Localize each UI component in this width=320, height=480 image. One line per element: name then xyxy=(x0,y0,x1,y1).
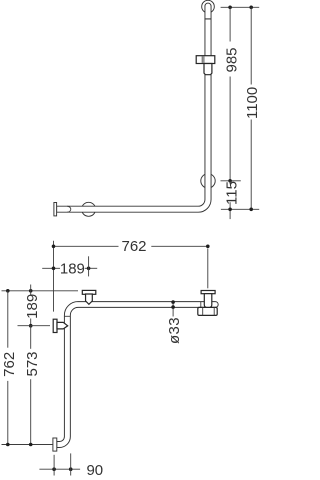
top extension line (upper view) xyxy=(221,6,260,8)
slider lower block xyxy=(204,64,212,75)
dot 762v/bottom xyxy=(6,443,10,447)
svg-text:1100: 1100 xyxy=(244,87,260,119)
dot 90/right xyxy=(69,467,73,471)
svg-text:573: 573 xyxy=(24,351,41,376)
dimension line 189 left upper segment xyxy=(30,285,32,296)
shower head slider body xyxy=(196,56,215,64)
corner mount cap xyxy=(82,290,96,294)
svg-text:115: 115 xyxy=(223,181,240,205)
svg-text:985: 985 xyxy=(223,47,240,72)
rosette on horizontal tube (upper view) xyxy=(82,202,96,216)
dimension line 189 top left segment xyxy=(42,267,60,269)
extension line shower column axis xyxy=(207,249,209,289)
dimension line 115 upper stub xyxy=(229,181,231,185)
joint line across vertical tube xyxy=(64,315,70,317)
dot 985/bottom xyxy=(228,179,232,183)
shower column cap (right end) xyxy=(201,291,215,294)
dot diameter bottom xyxy=(171,305,175,309)
L-shaped tube (upper view) xyxy=(57,19,211,212)
dot 90/left xyxy=(52,467,56,471)
dot 762top/right xyxy=(206,245,210,249)
extension line 90 left xyxy=(53,455,55,476)
wall flange plate (upper view left) xyxy=(54,203,57,216)
dot 762v/top xyxy=(6,289,10,293)
left mount cone xyxy=(57,322,68,329)
slider detail line 2 xyxy=(203,56,205,63)
dot 985/top xyxy=(228,6,232,10)
joint line on horizontal tube xyxy=(200,302,202,308)
extension line at rosette level xyxy=(221,180,241,182)
svg-text:762: 762 xyxy=(1,352,18,377)
dimension line 573 lower segment xyxy=(30,379,32,444)
dimension line 985 upper segment xyxy=(229,7,231,41)
svg-text:90: 90 xyxy=(86,462,103,479)
shower column stem xyxy=(204,294,212,308)
extension line 189top right xyxy=(88,256,90,276)
diameter leader line xyxy=(172,302,174,316)
extension line left mount level xyxy=(18,325,51,327)
dot 762top/left xyxy=(52,245,56,249)
svg-text:189: 189 xyxy=(60,260,85,277)
dot 1100/bottom xyxy=(249,208,253,212)
extension line 90 right xyxy=(70,453,72,475)
L-shaped tube (lower view) xyxy=(57,302,219,448)
corner mount cone xyxy=(86,294,93,304)
dot 189top/right xyxy=(87,267,91,271)
joint arc near wall flange (upper view) xyxy=(67,206,71,212)
dimension line 189 left lower segment xyxy=(30,319,32,326)
svg-text:189: 189 xyxy=(24,294,41,319)
dimension line 573 upper segment xyxy=(30,326,32,349)
extension line wall plane (left, vertical) xyxy=(53,241,55,312)
dot 189top/left xyxy=(52,267,56,271)
left mount plate xyxy=(53,319,57,332)
clamp block inner line left xyxy=(202,307,204,315)
bottom extension line (upper view) xyxy=(221,208,259,210)
rosette on vertical tube (upper view) xyxy=(201,174,215,188)
dimension line 985 lower segment xyxy=(229,77,231,181)
dot 189v/bottom xyxy=(29,324,33,328)
dot diameter top xyxy=(171,300,175,304)
slider detail line 1 xyxy=(201,56,203,63)
dimension line 189 top right segment xyxy=(85,267,97,269)
dimension line 762 top right segment xyxy=(151,245,208,247)
dimension line 762 top left segment xyxy=(54,245,119,247)
dimension line 90 xyxy=(39,468,80,470)
shower rail top cap capsule xyxy=(205,3,211,19)
dot 1100/top xyxy=(249,6,253,10)
clamp block inner line right xyxy=(213,307,215,315)
dot 115/bottom xyxy=(228,208,232,212)
clamp block (right end) xyxy=(198,307,217,315)
svg-text:762: 762 xyxy=(121,238,146,255)
bottom wall flange plate (lower view) xyxy=(53,438,57,451)
extension line mounts level xyxy=(2,290,79,292)
dimension line 1100 lower segment xyxy=(250,120,252,210)
dimension line 115 lower segment xyxy=(229,202,231,219)
dimension line 762 left lower segment xyxy=(7,381,9,445)
dot 573/bottom xyxy=(29,443,33,447)
dimension line 1100 upper segment xyxy=(250,7,252,84)
dimension line 762 left upper segment xyxy=(7,291,9,348)
extension line bottom flange level xyxy=(2,444,53,446)
top ring of shower rail xyxy=(202,0,215,13)
svg-text:ø33: ø33 xyxy=(166,317,183,344)
dot 189v/top xyxy=(29,289,33,293)
